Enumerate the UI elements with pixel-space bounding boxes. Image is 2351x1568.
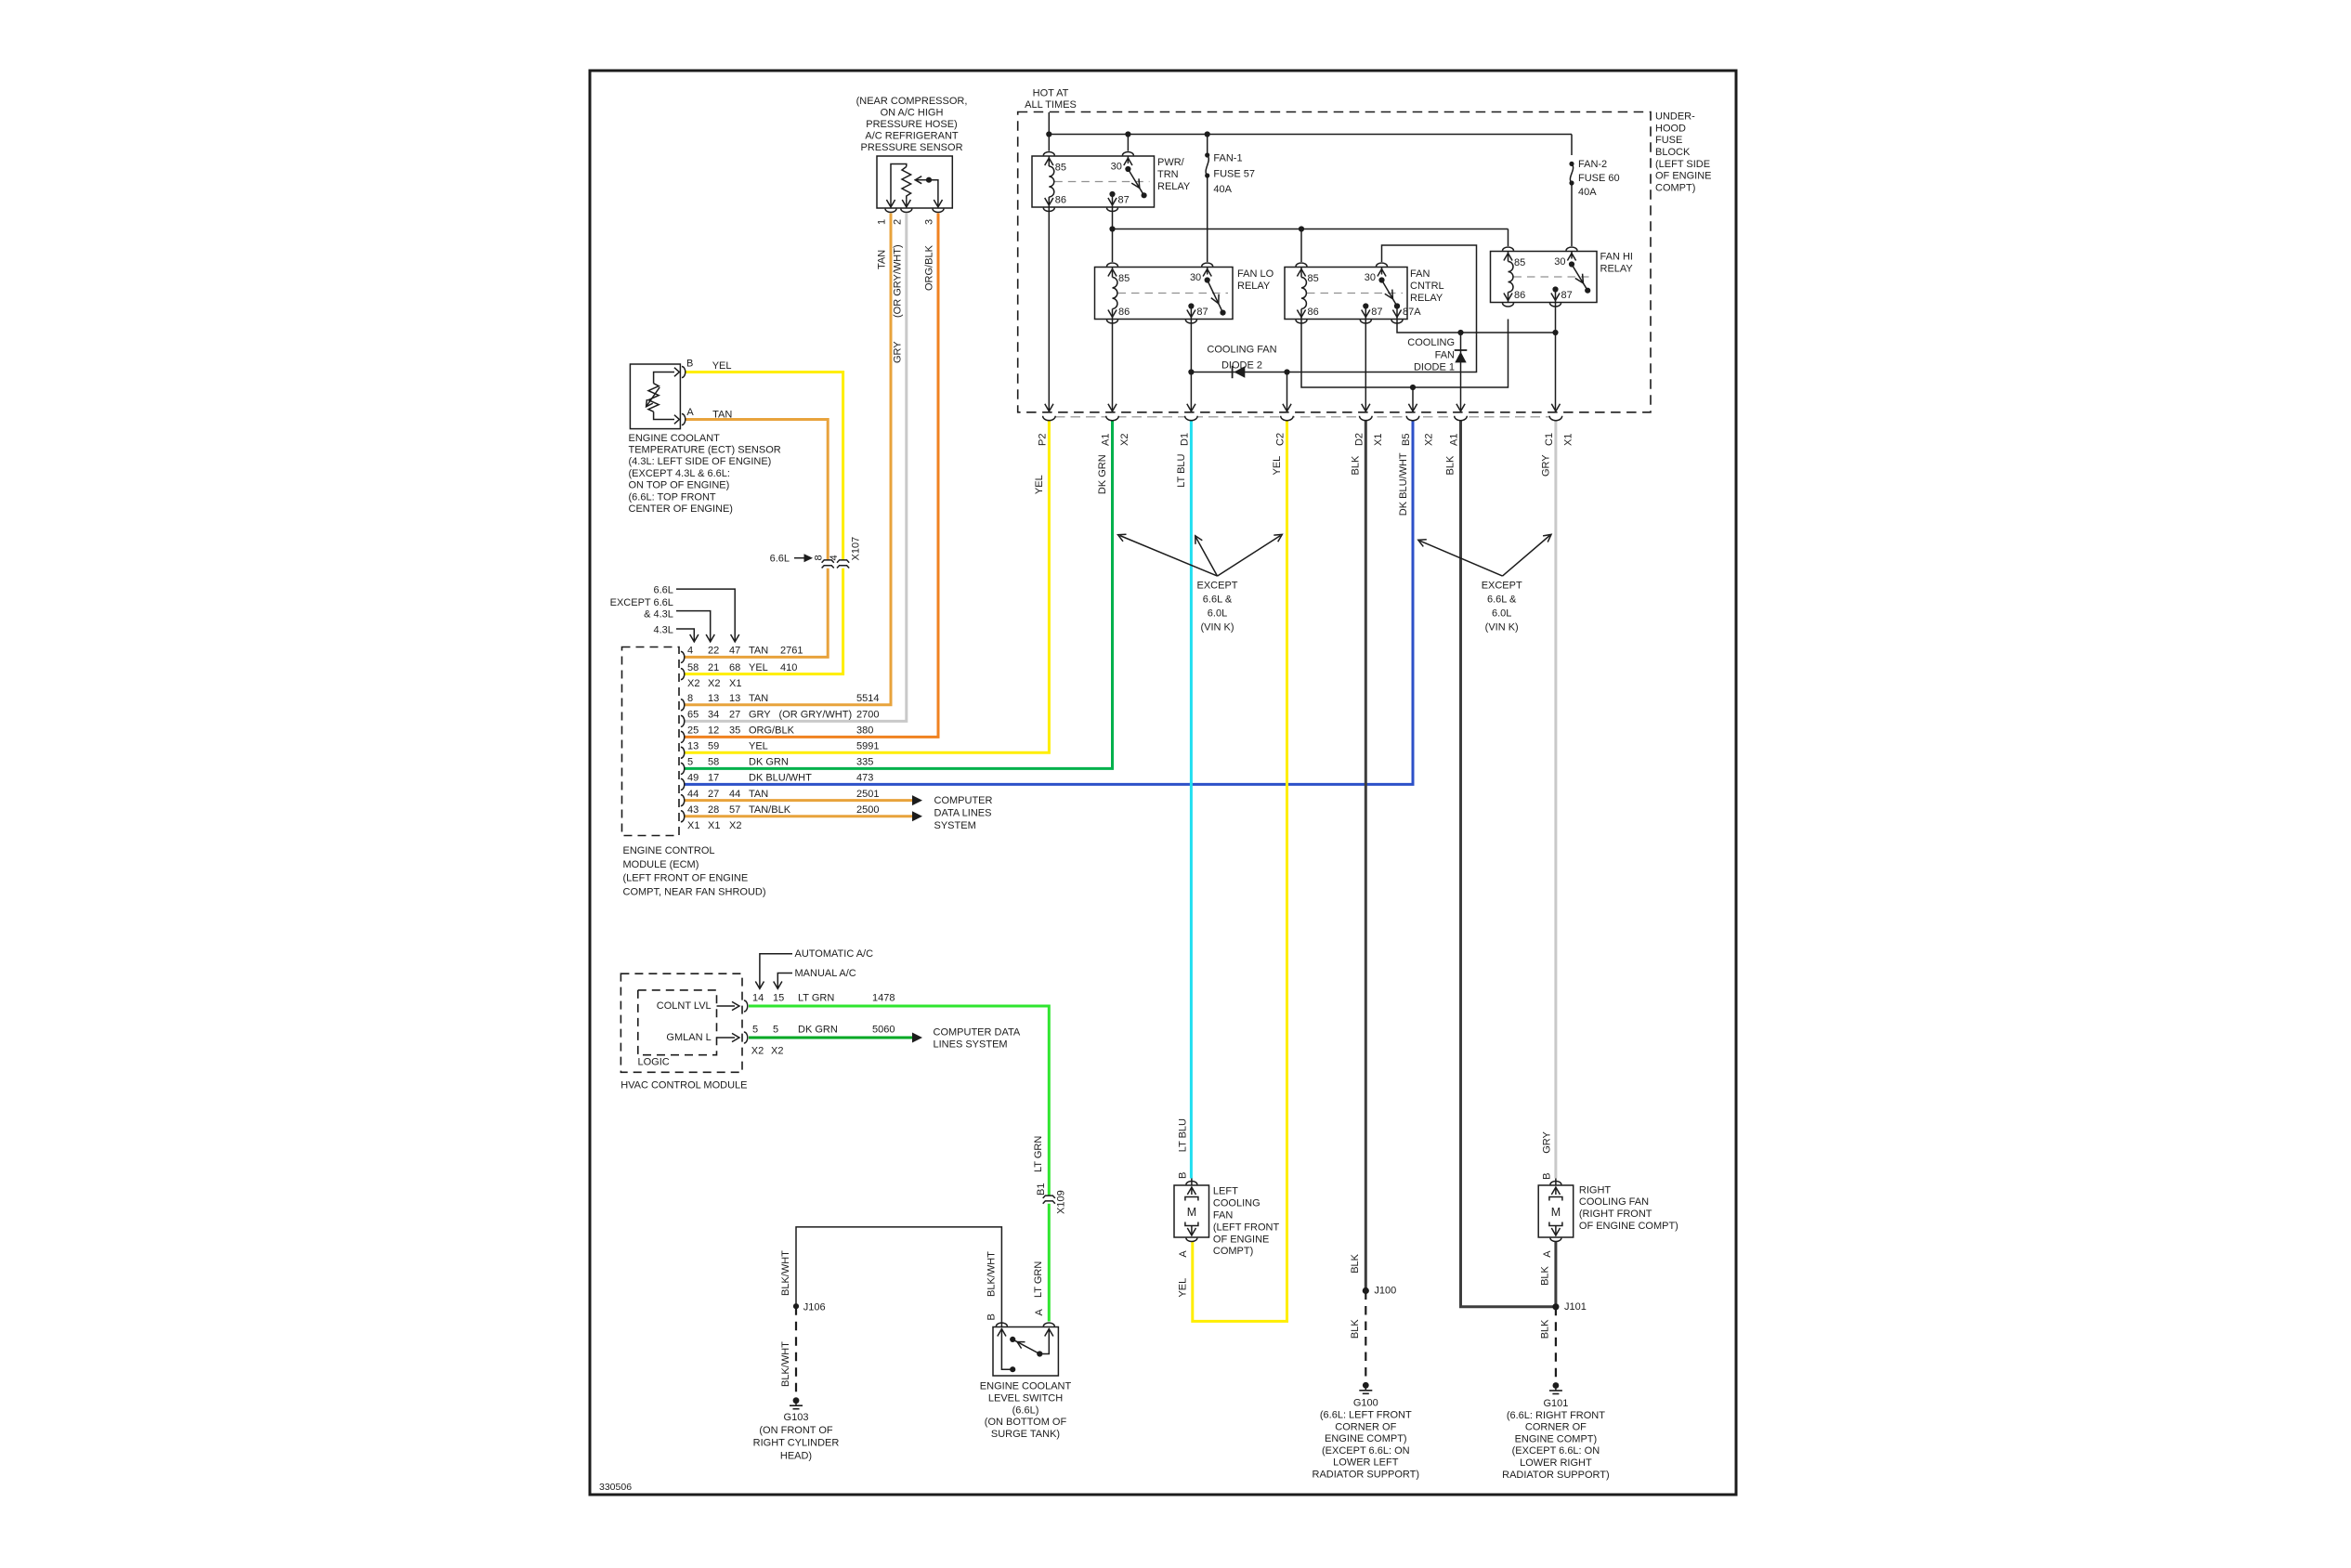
svg-text:PRESSURE SENSOR: PRESSURE SENSOR: [860, 142, 962, 153]
svg-text:(VIN K): (VIN K): [1485, 621, 1519, 633]
svg-text:TAN: TAN: [749, 789, 768, 800]
svg-text:LT GRN: LT GRN: [1033, 1136, 1044, 1172]
svg-text:30: 30: [1554, 256, 1565, 268]
svg-text:(VIN K): (VIN K): [1200, 621, 1234, 633]
svg-text:DK GRN: DK GRN: [798, 1025, 838, 1036]
svg-text:RELAY: RELAY: [1237, 281, 1271, 292]
svg-text:(EXCEPT 6.6L: ON: (EXCEPT 6.6L: ON: [1512, 1445, 1600, 1457]
svg-text:58: 58: [687, 662, 699, 673]
svg-text:COMPUTER: COMPUTER: [934, 795, 993, 806]
svg-text:27: 27: [708, 789, 719, 800]
svg-text:6.0L: 6.0L: [1492, 608, 1511, 619]
svg-text:1: 1: [877, 219, 888, 225]
svg-text:57: 57: [729, 804, 740, 816]
svg-text:40A: 40A: [1213, 184, 1232, 195]
svg-text:EXCEPT 6.6L: EXCEPT 6.6L: [610, 597, 673, 608]
svg-text:RADIATOR SUPPORT): RADIATOR SUPPORT): [1502, 1470, 1610, 1481]
svg-text:(LEFT FRONT: (LEFT FRONT: [1213, 1222, 1280, 1233]
svg-text:MANUAL A/C: MANUAL A/C: [795, 968, 856, 979]
svg-text:AUTOMATIC A/C: AUTOMATIC A/C: [795, 948, 874, 960]
svg-text:4.3L: 4.3L: [653, 624, 673, 635]
svg-text:X2: X2: [687, 678, 699, 689]
svg-text:ORG/BLK: ORG/BLK: [924, 244, 935, 291]
svg-text:ENGINE COOLANT: ENGINE COOLANT: [980, 1381, 1072, 1392]
svg-text:GRY: GRY: [1541, 1130, 1552, 1153]
svg-text:CENTER OF ENGINE): CENTER OF ENGINE): [629, 503, 733, 515]
svg-text:87A: 87A: [1403, 307, 1421, 318]
svg-text:35: 35: [729, 725, 740, 737]
svg-text:6.6L &: 6.6L &: [1487, 595, 1517, 606]
svg-text:GMLAN L: GMLAN L: [666, 1032, 711, 1043]
svg-text:FAN: FAN: [1213, 1210, 1233, 1222]
svg-text:85: 85: [1514, 257, 1525, 268]
svg-text:(LEFT FRONT OF ENGINE: (LEFT FRONT OF ENGINE: [623, 873, 749, 884]
svg-text:UNDER-: UNDER-: [1655, 111, 1695, 123]
svg-text:D1: D1: [1180, 433, 1191, 446]
svg-text:OF ENGINE: OF ENGINE: [1213, 1234, 1270, 1245]
svg-text:30: 30: [1111, 162, 1122, 173]
svg-text:330506: 330506: [599, 1482, 632, 1493]
svg-text:(OR GRY/WHT): (OR GRY/WHT): [892, 244, 903, 318]
svg-text:87: 87: [1196, 307, 1208, 318]
svg-text:X1: X1: [1373, 434, 1384, 446]
svg-text:RELAY: RELAY: [1157, 181, 1191, 192]
svg-text:5991: 5991: [856, 740, 879, 751]
svg-text:YEL: YEL: [1034, 475, 1045, 494]
svg-text:59: 59: [708, 740, 719, 751]
svg-text:49: 49: [687, 773, 699, 784]
svg-text:PWR/: PWR/: [1157, 157, 1185, 168]
svg-text:2501: 2501: [856, 789, 879, 800]
svg-text:2: 2: [892, 219, 903, 225]
svg-text:ON TOP OF ENGINE): ON TOP OF ENGINE): [629, 480, 730, 491]
svg-text:5: 5: [687, 757, 693, 768]
svg-text:(EXCEPT 4.3L & 6.6L:: (EXCEPT 4.3L & 6.6L:: [629, 468, 730, 479]
svg-text:TAN: TAN: [749, 646, 768, 657]
svg-text:34: 34: [708, 710, 719, 721]
svg-text:LT BLU: LT BLU: [1177, 1118, 1188, 1152]
svg-text:LOGIC: LOGIC: [638, 1057, 670, 1068]
svg-text:(6.6L: LEFT FRONT: (6.6L: LEFT FRONT: [1320, 1410, 1412, 1421]
svg-text:GRY: GRY: [1540, 454, 1551, 477]
svg-text:40A: 40A: [1578, 187, 1597, 198]
svg-text:TAN: TAN: [749, 693, 768, 704]
svg-text:LT BLU: LT BLU: [1176, 453, 1187, 487]
svg-text:ENGINE COMPT): ENGINE COMPT): [1325, 1433, 1407, 1444]
svg-text:TEMPERATURE (ECT) SENSOR: TEMPERATURE (ECT) SENSOR: [629, 445, 781, 456]
svg-text:BLK: BLK: [1350, 1319, 1361, 1339]
svg-text:YEL: YEL: [1177, 1278, 1188, 1298]
svg-text:(6.6L): (6.6L): [1012, 1405, 1039, 1416]
svg-text:BLK: BLK: [1539, 1319, 1550, 1339]
svg-text:GRY: GRY: [892, 341, 903, 363]
svg-text:COMPT): COMPT): [1655, 182, 1695, 193]
svg-text:TAN/BLK: TAN/BLK: [749, 804, 791, 816]
svg-text:RELAY: RELAY: [1410, 293, 1443, 304]
svg-text:M: M: [1187, 1206, 1196, 1219]
svg-text:6.6L: 6.6L: [770, 554, 790, 565]
svg-text:5514: 5514: [856, 693, 879, 704]
svg-text:21: 21: [708, 662, 719, 673]
svg-text:X2: X2: [708, 678, 720, 689]
svg-text:DK BLU/WHT: DK BLU/WHT: [749, 773, 812, 784]
svg-text:14: 14: [752, 993, 764, 1004]
svg-text:YEL: YEL: [749, 662, 768, 673]
svg-text:X1: X1: [687, 820, 699, 831]
svg-text:ON A/C HIGH: ON A/C HIGH: [881, 107, 944, 118]
svg-text:EXCEPT: EXCEPT: [1196, 581, 1237, 592]
svg-text:RELAY: RELAY: [1600, 264, 1634, 275]
svg-text:COLNT LVL: COLNT LVL: [657, 1000, 712, 1012]
svg-text:COMPT): COMPT): [1213, 1246, 1253, 1257]
svg-text:CNTRL: CNTRL: [1410, 281, 1444, 292]
svg-text:CORNER OF: CORNER OF: [1525, 1422, 1587, 1433]
svg-text:(EXCEPT 6.6L: ON: (EXCEPT 6.6L: ON: [1322, 1445, 1410, 1457]
svg-text:(6.6L: RIGHT FRONT: (6.6L: RIGHT FRONT: [1507, 1410, 1605, 1421]
svg-text:A: A: [686, 407, 694, 418]
svg-text:87: 87: [1118, 195, 1130, 206]
svg-text:(LEFT SIDE: (LEFT SIDE: [1655, 159, 1710, 170]
svg-text:85: 85: [1055, 163, 1066, 174]
svg-text:86: 86: [1118, 307, 1130, 318]
svg-text:473: 473: [856, 773, 873, 784]
svg-text:2700: 2700: [856, 710, 879, 721]
svg-text:X107: X107: [851, 537, 862, 561]
svg-text:25: 25: [687, 725, 699, 737]
svg-text:43: 43: [687, 804, 699, 816]
svg-text:CORNER OF: CORNER OF: [1335, 1421, 1396, 1432]
svg-text:B1: B1: [1036, 1183, 1047, 1196]
svg-text:X1: X1: [1563, 434, 1574, 446]
svg-text:BLK/WHT: BLK/WHT: [780, 1250, 791, 1296]
svg-text:BLOCK: BLOCK: [1655, 147, 1691, 158]
svg-text:COOLING FAN: COOLING FAN: [1207, 345, 1276, 356]
svg-text:3: 3: [924, 219, 935, 225]
svg-text:FAN-1: FAN-1: [1213, 153, 1242, 164]
svg-text:M: M: [1551, 1206, 1561, 1219]
svg-text:30: 30: [1365, 272, 1376, 283]
svg-text:(ON BOTTOM OF: (ON BOTTOM OF: [985, 1417, 1067, 1428]
svg-text:87: 87: [1371, 307, 1382, 318]
svg-text:DK BLU/WHT: DK BLU/WHT: [1398, 452, 1409, 516]
svg-text:A: A: [1034, 1309, 1045, 1316]
svg-text:87: 87: [1561, 290, 1573, 301]
svg-text:X1: X1: [729, 678, 741, 689]
svg-text:13: 13: [687, 740, 699, 751]
svg-text:86: 86: [1514, 290, 1525, 301]
svg-text:YEL: YEL: [712, 360, 732, 372]
svg-text:COOLING FAN: COOLING FAN: [1579, 1196, 1649, 1208]
svg-text:44: 44: [687, 789, 699, 800]
svg-text:2500: 2500: [856, 804, 879, 816]
svg-text:DIODE 2: DIODE 2: [1221, 359, 1262, 371]
svg-text:6.6L &: 6.6L &: [1203, 595, 1233, 606]
svg-text:335: 335: [856, 757, 873, 768]
svg-text:B: B: [1177, 1172, 1188, 1179]
svg-text:85: 85: [1308, 273, 1319, 284]
svg-text:DIODE 1: DIODE 1: [1414, 362, 1455, 373]
svg-text:44: 44: [729, 789, 740, 800]
svg-text:G101: G101: [1543, 1398, 1568, 1409]
svg-text:YEL: YEL: [1272, 456, 1283, 476]
svg-text:X2: X2: [771, 1045, 783, 1056]
svg-text:BLK/WHT: BLK/WHT: [780, 1341, 791, 1387]
svg-text:HOOD: HOOD: [1655, 123, 1686, 134]
svg-text:(RIGHT FRONT: (RIGHT FRONT: [1579, 1209, 1652, 1220]
svg-text:380: 380: [856, 725, 873, 737]
svg-text:FAN: FAN: [1410, 268, 1430, 280]
svg-text:(NEAR COMPRESSOR,: (NEAR COMPRESSOR,: [856, 96, 968, 107]
svg-text:X109: X109: [1055, 1190, 1066, 1214]
svg-text:FAN HI: FAN HI: [1600, 252, 1633, 263]
svg-text:X2: X2: [1424, 434, 1435, 446]
svg-text:(4.3L: LEFT SIDE OF ENGINE): (4.3L: LEFT SIDE OF ENGINE): [629, 456, 772, 467]
svg-text:X2: X2: [751, 1045, 764, 1056]
svg-text:J100: J100: [1374, 1285, 1396, 1296]
svg-text:YEL: YEL: [749, 740, 768, 751]
svg-text:FAN-2: FAN-2: [1578, 159, 1607, 170]
svg-text:LOWER LEFT: LOWER LEFT: [1333, 1457, 1399, 1469]
svg-text:A/C REFRIGERANT: A/C REFRIGERANT: [865, 131, 959, 142]
svg-text:28: 28: [708, 804, 719, 816]
svg-text:DK GRN: DK GRN: [1097, 454, 1108, 494]
svg-text:C1: C1: [1544, 433, 1555, 446]
svg-text:B: B: [1541, 1173, 1552, 1180]
svg-text:22: 22: [708, 646, 719, 657]
svg-text:FAN LO: FAN LO: [1237, 268, 1274, 280]
svg-text:RADIATOR SUPPORT): RADIATOR SUPPORT): [1313, 1470, 1420, 1481]
svg-text:COMPT, NEAR FAN SHROUD): COMPT, NEAR FAN SHROUD): [623, 887, 766, 898]
svg-text:4: 4: [687, 646, 693, 657]
svg-text:FUSE 57: FUSE 57: [1213, 168, 1255, 179]
svg-text:X2: X2: [1119, 434, 1130, 446]
svg-text:(6.6L: TOP FRONT: (6.6L: TOP FRONT: [629, 491, 716, 503]
svg-text:ENGINE COOLANT: ENGINE COOLANT: [629, 433, 721, 444]
svg-text:ENGINE COMPT): ENGINE COMPT): [1515, 1433, 1598, 1444]
svg-text:4: 4: [829, 555, 840, 560]
svg-text:HOT AT: HOT AT: [1033, 87, 1069, 98]
svg-text:DK GRN: DK GRN: [749, 757, 789, 768]
svg-text:A1: A1: [1449, 434, 1460, 446]
svg-text:15: 15: [773, 993, 784, 1004]
svg-text:1478: 1478: [872, 993, 895, 1004]
svg-text:COMPUTER DATA: COMPUTER DATA: [934, 1027, 1021, 1039]
svg-text:68: 68: [729, 662, 740, 673]
svg-text:J101: J101: [1564, 1301, 1587, 1313]
svg-text:A: A: [1542, 1250, 1553, 1258]
svg-text:LOWER RIGHT: LOWER RIGHT: [1520, 1457, 1592, 1469]
svg-text:X1: X1: [708, 820, 720, 831]
svg-text:TAN: TAN: [877, 250, 888, 269]
svg-text:ORG/BLK: ORG/BLK: [749, 725, 795, 737]
svg-text:8: 8: [687, 693, 693, 704]
svg-text:B5: B5: [1401, 434, 1412, 446]
svg-text:LT GRN: LT GRN: [798, 993, 834, 1004]
svg-text:B: B: [686, 359, 693, 370]
svg-text:COOLING: COOLING: [1213, 1198, 1260, 1209]
svg-text:BLK: BLK: [1539, 1265, 1550, 1285]
svg-text:FAN: FAN: [1435, 349, 1455, 360]
svg-text:EXCEPT: EXCEPT: [1482, 581, 1522, 592]
svg-text:A1: A1: [1101, 434, 1112, 446]
svg-text:LINES SYSTEM: LINES SYSTEM: [934, 1039, 1008, 1050]
svg-text:& 4.3L: & 4.3L: [644, 609, 673, 621]
svg-text:86: 86: [1308, 307, 1319, 318]
svg-text:13: 13: [708, 693, 719, 704]
svg-text:47: 47: [729, 646, 740, 657]
svg-text:27: 27: [729, 710, 740, 721]
svg-text:C2: C2: [1275, 433, 1287, 446]
svg-text:LEVEL SWITCH: LEVEL SWITCH: [988, 1393, 1063, 1405]
svg-text:5: 5: [752, 1025, 758, 1036]
svg-text:GRY: GRY: [749, 710, 771, 721]
svg-text:PRESSURE HOSE): PRESSURE HOSE): [866, 119, 957, 130]
svg-text:5060: 5060: [872, 1025, 895, 1036]
svg-text:RIGHT: RIGHT: [1579, 1184, 1612, 1196]
svg-text:X2: X2: [729, 820, 741, 831]
svg-text:BLK: BLK: [1350, 1253, 1361, 1273]
svg-text:MODULE (ECM): MODULE (ECM): [623, 859, 699, 870]
svg-text:FUSE: FUSE: [1655, 135, 1682, 146]
svg-text:410: 410: [780, 662, 797, 673]
svg-text:TRN: TRN: [1157, 169, 1179, 180]
svg-text:D2: D2: [1353, 433, 1365, 446]
svg-text:(ON FRONT OF: (ON FRONT OF: [759, 1425, 833, 1436]
svg-text:ALL TIMES: ALL TIMES: [1025, 99, 1077, 111]
svg-text:58: 58: [708, 757, 719, 768]
svg-text:13: 13: [729, 693, 740, 704]
svg-text:6.6L: 6.6L: [653, 585, 673, 596]
svg-text:HEAD): HEAD): [780, 1451, 812, 1462]
svg-text:(OR GRY/WHT): (OR GRY/WHT): [779, 710, 853, 721]
svg-text:BLK: BLK: [1351, 455, 1362, 475]
svg-text:5: 5: [773, 1025, 778, 1036]
svg-text:6.0L: 6.0L: [1208, 608, 1227, 619]
svg-text:P2: P2: [1038, 434, 1049, 446]
svg-text:86: 86: [1055, 195, 1066, 206]
svg-text:LT GRN: LT GRN: [1033, 1261, 1044, 1298]
svg-text:DATA LINES: DATA LINES: [934, 808, 992, 819]
svg-text:G103: G103: [784, 1412, 809, 1423]
svg-text:SURGE TANK): SURGE TANK): [991, 1429, 1060, 1440]
svg-text:ENGINE CONTROL: ENGINE CONTROL: [623, 845, 715, 856]
svg-text:RIGHT CYLINDER: RIGHT CYLINDER: [753, 1438, 840, 1449]
svg-text:17: 17: [708, 773, 719, 784]
svg-text:HVAC CONTROL MODULE: HVAC CONTROL MODULE: [620, 1080, 747, 1091]
svg-text:BLK: BLK: [1445, 455, 1456, 475]
svg-text:8: 8: [814, 555, 825, 560]
svg-text:85: 85: [1118, 273, 1130, 284]
svg-text:B: B: [986, 1313, 998, 1320]
svg-text:65: 65: [687, 710, 699, 721]
svg-text:LEFT: LEFT: [1213, 1186, 1238, 1197]
svg-text:G100: G100: [1353, 1398, 1378, 1409]
svg-text:COOLING: COOLING: [1407, 337, 1455, 348]
svg-text:OF ENGINE: OF ENGINE: [1655, 171, 1712, 182]
svg-text:2761: 2761: [780, 646, 803, 657]
svg-text:SYSTEM: SYSTEM: [934, 820, 976, 831]
svg-text:BLK/WHT: BLK/WHT: [986, 1251, 998, 1297]
svg-text:TAN: TAN: [712, 409, 732, 420]
svg-text:OF ENGINE COMPT): OF ENGINE COMPT): [1579, 1221, 1678, 1232]
svg-text:J106: J106: [803, 1301, 826, 1313]
svg-text:FUSE 60: FUSE 60: [1578, 173, 1620, 184]
svg-text:12: 12: [708, 725, 719, 737]
svg-text:30: 30: [1190, 272, 1201, 283]
svg-text:A: A: [1178, 1250, 1189, 1258]
